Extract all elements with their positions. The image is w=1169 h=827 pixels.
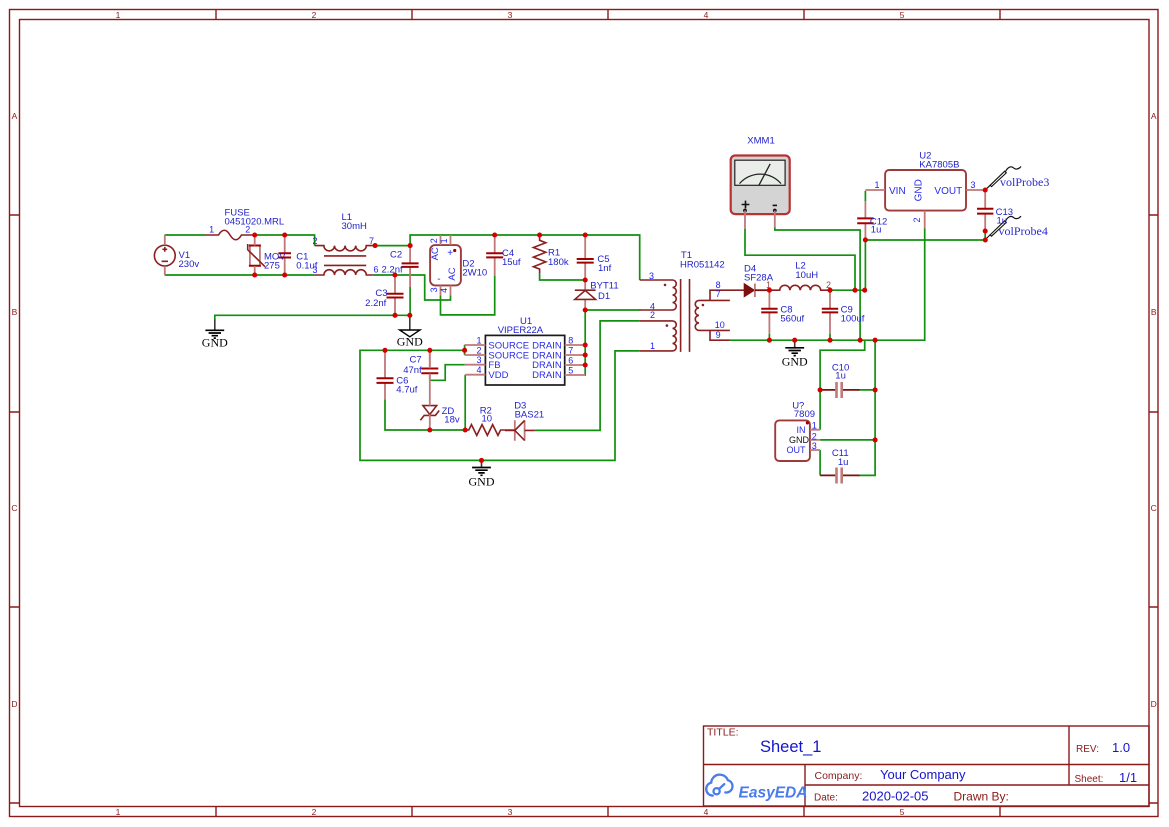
node C1 bottom xyxy=(282,272,287,277)
node 7809 GND bus xyxy=(873,437,878,442)
svg-text:1u: 1u xyxy=(835,371,846,382)
wire FB elbow from C7 xyxy=(430,365,465,381)
svg-text:1: 1 xyxy=(116,10,121,20)
svg-text:2: 2 xyxy=(245,225,250,235)
svg-text:C: C xyxy=(1151,503,1157,513)
svg-text:D: D xyxy=(1151,699,1157,709)
svg-text:C: C xyxy=(11,503,17,513)
capacitor C8 xyxy=(761,292,777,334)
svg-text:1u: 1u xyxy=(871,225,882,236)
ground GND1 (earth) xyxy=(205,320,224,339)
node R1 top xyxy=(537,232,542,237)
svg-text:3: 3 xyxy=(812,441,817,451)
node VDD-R2 xyxy=(463,427,468,432)
svg-text:100uf: 100uf xyxy=(841,313,865,324)
wire drain bus U1 pins 8-5 xyxy=(584,310,586,375)
node XMM plus tap xyxy=(852,288,857,293)
node GND2 tap xyxy=(479,458,484,463)
svg-text:3: 3 xyxy=(508,807,513,817)
svg-text:230v: 230v xyxy=(179,259,200,270)
node C12 drop tap xyxy=(862,288,867,293)
node C12 bottom xyxy=(863,237,868,242)
svg-text:VOUT: VOUT xyxy=(934,186,962,197)
capacitor C2 xyxy=(402,248,419,316)
svg-text:5: 5 xyxy=(568,365,573,375)
svg-text:7: 7 xyxy=(716,289,721,299)
capacitor C6 xyxy=(377,352,394,400)
svg-text:KA7805B: KA7805B xyxy=(919,160,959,171)
svg-text:EasyEDA: EasyEDA xyxy=(739,785,808,802)
node C6 top xyxy=(382,348,387,353)
svg-text:GND: GND xyxy=(397,334,423,348)
wire D2 pin3 to C4 bottom xyxy=(441,276,495,315)
svg-text:-: - xyxy=(437,274,440,285)
wire C8 bottom tail xyxy=(768,334,770,340)
node fuse-MOV top xyxy=(252,232,257,237)
svg-text:B: B xyxy=(1151,307,1157,317)
svg-text:Sheet_1: Sheet_1 xyxy=(760,738,821,756)
svg-text:7: 7 xyxy=(568,345,573,355)
svg-text:AC: AC xyxy=(447,267,458,280)
wire V1 top to fuse xyxy=(165,234,206,236)
svg-text:180k: 180k xyxy=(548,257,569,268)
node C4 top xyxy=(492,232,497,237)
svg-text:10uH: 10uH xyxy=(795,270,818,281)
svg-text:4: 4 xyxy=(476,365,481,375)
svg-text:30mH: 30mH xyxy=(342,221,367,232)
svg-text:2: 2 xyxy=(312,10,317,20)
svg-text:1/1: 1/1 xyxy=(1119,770,1137,785)
svg-text:TITLE:: TITLE: xyxy=(707,727,739,739)
svg-text:B: B xyxy=(12,307,18,317)
svg-text:6: 6 xyxy=(373,265,378,275)
svg-text:Company:: Company: xyxy=(815,770,863,782)
svg-text:DRAIN: DRAIN xyxy=(532,370,562,381)
wire fuse to L1 pin2 (node AC-L) xyxy=(255,235,315,246)
svg-text:3: 3 xyxy=(508,10,513,20)
node C5 bottom xyxy=(583,277,588,282)
svg-text:1.0: 1.0 xyxy=(1112,740,1130,755)
svg-text:GND: GND xyxy=(914,179,925,201)
node GND3 tap xyxy=(792,338,797,343)
capacitor C10 xyxy=(820,382,859,398)
wire 7809 OUT down to C11 xyxy=(819,450,821,475)
capacitor C5 xyxy=(577,237,594,278)
svg-text:Sheet:: Sheet: xyxy=(1075,774,1104,785)
svg-text:volProbe3: volProbe3 xyxy=(1000,175,1049,189)
wire right bus C10/C11 xyxy=(874,340,876,440)
svg-text:1: 1 xyxy=(439,238,449,243)
node U1 drain 7 xyxy=(583,352,588,357)
svg-text:1: 1 xyxy=(812,421,817,431)
capacitor C7 xyxy=(421,352,438,381)
node volProbe3 xyxy=(983,187,988,192)
svg-text:2: 2 xyxy=(476,345,481,355)
source V1 xyxy=(154,235,175,275)
svg-text:5: 5 xyxy=(900,10,905,20)
svg-text:2W10: 2W10 xyxy=(462,268,487,279)
svg-text:2.2nf: 2.2nf xyxy=(365,298,386,309)
transformer T1 HR051142 xyxy=(640,279,745,352)
svg-text:HR051142: HR051142 xyxy=(680,259,725,270)
svg-text:0451020.MRL: 0451020.MRL xyxy=(225,217,285,228)
svg-text:AC: AC xyxy=(430,247,441,260)
node U1 source junction xyxy=(462,348,467,353)
resistor R1 xyxy=(533,235,545,273)
capacitor C9 xyxy=(822,292,838,334)
svg-text:1: 1 xyxy=(476,335,481,345)
svg-text:Drawn By:: Drawn By: xyxy=(954,790,1009,804)
wire U2 VIN elbow to C12 xyxy=(864,191,866,201)
node C3 bottom GND xyxy=(392,313,397,318)
svg-text:GND: GND xyxy=(469,474,495,488)
node ZD bottom xyxy=(427,427,432,432)
ground GND3 (earth, secondary) xyxy=(785,340,804,355)
capacitor C11 xyxy=(820,468,859,484)
node L1 pin7 xyxy=(373,243,378,248)
wire C12 bottom to output node xyxy=(864,240,866,290)
svg-text:1nf: 1nf xyxy=(598,263,612,274)
svg-text:3: 3 xyxy=(649,271,654,281)
svg-text:GND: GND xyxy=(782,354,808,368)
svg-text:2: 2 xyxy=(826,280,831,290)
svg-text:GND: GND xyxy=(789,435,810,445)
svg-text:Date:: Date: xyxy=(814,793,838,804)
wire VDD down to R2 node xyxy=(464,375,466,430)
node MOV bottom xyxy=(252,272,257,277)
probe volProbe4 xyxy=(985,216,1021,239)
wire L1 pin6 to C3 and corner to D2 pin4 xyxy=(374,275,451,300)
svg-text:4.7uf: 4.7uf xyxy=(396,384,417,395)
svg-text:1: 1 xyxy=(766,280,771,290)
svg-text:7: 7 xyxy=(369,236,374,246)
node C3 top xyxy=(392,272,397,277)
op-amp U1 VIPER22A box xyxy=(465,335,586,385)
varistor MOV xyxy=(248,235,265,275)
wire C11 right up to GND-pin node xyxy=(859,440,876,476)
svg-text:6: 6 xyxy=(568,355,573,365)
svg-text:BAS21: BAS21 xyxy=(515,409,545,420)
node C5 top xyxy=(583,232,588,237)
svg-text:GND: GND xyxy=(202,336,228,350)
svg-text:18v: 18v xyxy=(444,415,460,426)
wire U1 source pins 1-2 link xyxy=(464,345,466,355)
svg-text:3: 3 xyxy=(970,180,975,190)
TITLE BLOCK xyxy=(704,726,1150,806)
svg-text:2: 2 xyxy=(312,807,317,817)
wire source node to left rail xyxy=(360,350,640,460)
ground GND4 (triangle, C2/C3 net) xyxy=(400,315,420,337)
zener ZD 18v xyxy=(420,352,439,429)
svg-text:10: 10 xyxy=(482,414,493,425)
capacitor C4 xyxy=(486,237,503,276)
capacitor C3 xyxy=(387,277,404,314)
CIRCUIT xyxy=(165,191,986,476)
wire C2 top up and right to D2/C4/R1/C5 then down to T1 pin3 xyxy=(410,235,640,280)
svg-text:3: 3 xyxy=(476,355,481,365)
svg-text:5: 5 xyxy=(900,807,905,817)
svg-text:D1: D1 xyxy=(598,291,610,302)
svg-text:BYT11: BYT11 xyxy=(590,280,618,291)
wire GND1 line under C2/C3 xyxy=(215,315,410,319)
svg-text:1: 1 xyxy=(650,341,655,351)
node C2 top xyxy=(408,243,413,248)
svg-text:Your Company: Your Company xyxy=(880,767,966,782)
svg-text:2: 2 xyxy=(912,217,922,222)
svg-text:2: 2 xyxy=(812,432,817,442)
svg-text:VIPER22A: VIPER22A xyxy=(498,325,544,336)
svg-text:1: 1 xyxy=(116,807,121,817)
node U1 drain 8 xyxy=(583,342,588,347)
resistor R2 xyxy=(465,425,514,436)
capacitor C12 xyxy=(857,201,873,238)
regulator U? 7809 xyxy=(775,420,820,461)
node right bus rail xyxy=(873,338,878,343)
wire XMM1 plus lead down to output node xyxy=(745,229,855,290)
svg-text:1: 1 xyxy=(874,180,879,190)
wire L2 out to output node xyxy=(830,289,865,291)
bridge rectifier D2 2W10 xyxy=(429,235,461,295)
wire D3 anode to T1 pin2 xyxy=(535,321,640,431)
diode D4 SF28A xyxy=(744,284,769,298)
svg-text:8: 8 xyxy=(568,335,573,345)
inductor L1 (common-mode choke) xyxy=(315,246,376,275)
wire D1 anode to T1 pin4 xyxy=(585,309,640,311)
svg-text:REV:: REV: xyxy=(1076,744,1099,755)
node C10 right xyxy=(873,387,878,392)
node C13 bottom xyxy=(983,228,988,233)
wire V1 bottom rail to L1 pin3 xyxy=(165,274,315,276)
wire 7809 GND pin to right bus xyxy=(820,439,875,441)
svg-text:15uf: 15uf xyxy=(502,257,521,268)
multimeter XMM1 xyxy=(731,156,790,230)
svg-text:1: 1 xyxy=(209,225,214,235)
svg-text:volProbe4: volProbe4 xyxy=(999,224,1048,238)
wire C13 bottom tail xyxy=(984,231,986,240)
wire C6 bottom to R2 line xyxy=(385,399,466,430)
inductor L2 xyxy=(769,285,830,290)
svg-text:3: 3 xyxy=(312,265,317,275)
svg-text:+: + xyxy=(447,248,453,259)
svg-text:2: 2 xyxy=(429,238,439,243)
svg-text:2: 2 xyxy=(312,236,317,246)
node C2 bottom GND xyxy=(407,313,412,318)
wire C9 bottom tail xyxy=(829,334,831,340)
svg-text:4: 4 xyxy=(704,10,709,20)
svg-text:275: 275 xyxy=(264,261,280,272)
node C8 top xyxy=(767,288,772,293)
capacitor C13 xyxy=(977,192,993,229)
wire C12 node to volProbe4 node xyxy=(865,239,985,241)
svg-text:A: A xyxy=(1151,111,1157,121)
capacitor C1 xyxy=(278,235,291,275)
svg-text:9: 9 xyxy=(716,330,721,340)
node C9 bottom xyxy=(827,338,832,343)
wire elbow ground rail to 7809 IN xyxy=(820,340,865,430)
node C9 top xyxy=(827,288,832,293)
svg-text:560uf: 560uf xyxy=(780,313,804,324)
wire L1 pin7 to C2 top xyxy=(375,245,410,247)
fuse FUSE 0451020.MRL xyxy=(206,230,255,240)
node C8 bottom xyxy=(767,338,772,343)
regulator U2 KA7805B xyxy=(865,170,985,229)
svg-text:4: 4 xyxy=(704,807,709,817)
svg-text:1u: 1u xyxy=(838,457,849,468)
wire R1 bottom to C5 bottom node xyxy=(540,273,586,280)
node XMM minus tap xyxy=(858,338,863,343)
svg-text:OUT: OUT xyxy=(787,445,807,455)
ground GND2 (earth, U1 area) xyxy=(472,460,491,475)
svg-text:VDD: VDD xyxy=(488,370,508,381)
node D1 anode xyxy=(583,307,588,312)
node volProbe4 xyxy=(983,237,988,242)
svg-text:2020-02-05: 2020-02-05 xyxy=(862,789,929,804)
svg-text:2.2nf: 2.2nf xyxy=(382,265,403,276)
svg-text:3: 3 xyxy=(429,287,439,292)
wire C10 right to right bus xyxy=(859,389,876,391)
svg-text:A: A xyxy=(12,111,18,121)
node C10 left xyxy=(818,387,823,392)
svg-text:D: D xyxy=(11,699,17,709)
svg-text:IN: IN xyxy=(797,425,806,435)
svg-text:C7: C7 xyxy=(410,354,422,365)
diode D3 BAS21 xyxy=(505,420,535,441)
svg-text:XMM1: XMM1 xyxy=(747,135,774,146)
probe volProbe3 xyxy=(985,167,1021,190)
svg-text:4: 4 xyxy=(439,288,449,293)
svg-text:7809: 7809 xyxy=(794,409,815,420)
svg-text:10: 10 xyxy=(715,320,725,330)
svg-text:2: 2 xyxy=(650,310,655,320)
svg-text:VIN: VIN xyxy=(889,186,906,197)
node U1 drain 6 xyxy=(583,362,588,367)
diode D1 BYT11 xyxy=(575,282,596,308)
EasyEDA logo xyxy=(706,775,807,802)
node C7 top xyxy=(427,348,432,353)
svg-text:C2: C2 xyxy=(390,250,402,261)
node C1 top xyxy=(282,232,287,237)
wire T1 pin9 to GND rail and up to U2 GND pin xyxy=(730,229,925,341)
wire XMM1 minus lead down to ground rail xyxy=(775,228,860,341)
